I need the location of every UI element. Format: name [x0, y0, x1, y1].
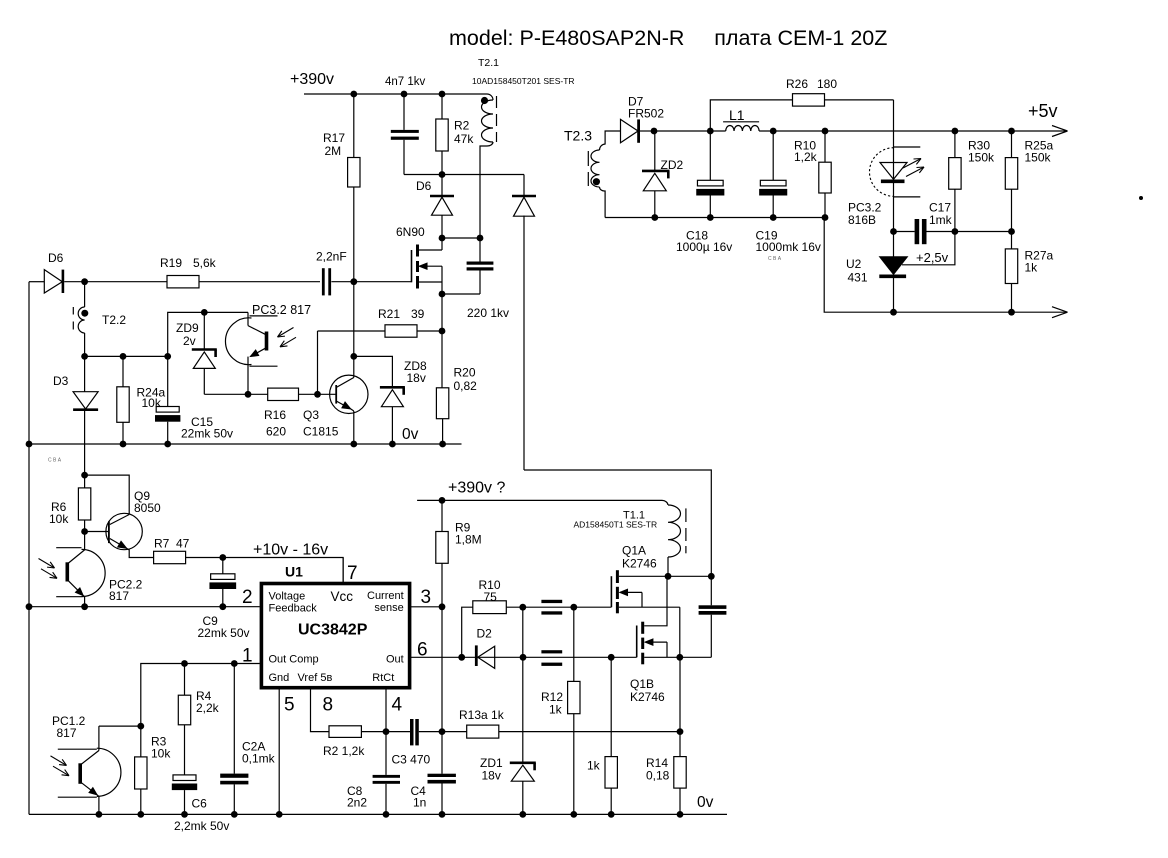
svg-text:C B A: C B A	[48, 458, 62, 464]
wire R10a left	[462, 607, 473, 657]
node ZD2 bottom	[651, 214, 658, 221]
T2.2 core dashes	[72, 307, 74, 315]
svg-text:10AD158450T201 SES-TR: 10AD158450T201 SES-TR	[472, 76, 575, 86]
wire pin7	[342, 558, 344, 584]
wire pin1	[141, 664, 260, 727]
wire R12 vert	[573, 607, 575, 681]
wire R2-C3	[361, 731, 410, 733]
svg-text:0v: 0v	[402, 426, 419, 443]
svg-text:R2: R2	[454, 119, 470, 133]
svg-text:R13a 1k: R13a 1k	[459, 708, 505, 722]
node C17-R25a	[1008, 228, 1015, 235]
wire pin3	[410, 606, 442, 608]
T2.3 core dashes	[587, 151, 589, 166]
node Q3 collector	[350, 353, 357, 360]
resistor R10 secondary	[824, 131, 826, 162]
svg-text:C B A: C B A	[768, 256, 782, 262]
zener ZD9	[203, 312, 205, 349]
svg-text:Q3: Q3	[303, 408, 319, 422]
svg-text:Out Comp: Out Comp	[269, 654, 319, 666]
node 0v R24a	[120, 441, 127, 448]
svg-text:L1: L1	[729, 107, 745, 123]
svg-text:FR502: FR502	[628, 107, 664, 121]
T1.1 core dashes	[685, 508, 687, 522]
svg-text:+390v ?: +390v ?	[448, 480, 505, 497]
capacitor C18	[709, 131, 711, 180]
svg-text:22mk 50v: 22mk 50v	[181, 427, 233, 441]
node R9-R13a	[439, 728, 446, 735]
node rail-4n7	[401, 91, 408, 98]
transistor 6N90	[411, 250, 413, 282]
svg-text:39: 39	[411, 307, 425, 321]
svg-text:18v: 18v	[482, 769, 501, 783]
node T1.1-drain	[665, 573, 672, 580]
wire cap-gate	[331, 281, 411, 283]
node Q1A source	[676, 654, 683, 661]
node T2.2-bottom	[81, 353, 88, 360]
svg-text:Vcc: Vcc	[331, 589, 354, 604]
svg-text:1n: 1n	[413, 796, 426, 810]
node gatewire-ZD1	[519, 604, 526, 611]
svg-text:8050: 8050	[134, 501, 161, 515]
node 0v ZD1	[519, 811, 526, 818]
wire 1k bottom	[610, 788, 612, 814]
svg-text:R2 1,2k: R2 1,2k	[323, 744, 365, 758]
svg-text:2M: 2M	[325, 144, 342, 158]
node U2 bottom	[890, 309, 897, 316]
node C9 bottom	[219, 603, 226, 610]
svg-text:Gnd: Gnd	[269, 672, 290, 684]
resistor R19	[167, 276, 199, 288]
wire C15 top	[167, 356, 169, 406]
wire D6l-R19	[64, 281, 167, 283]
resistor R17	[348, 158, 360, 188]
svg-text:0,1mk: 0,1mk	[242, 752, 276, 766]
wire R17-Q3 junction	[353, 282, 355, 357]
node 0v C15	[164, 441, 171, 448]
svg-text:1000mk 16v: 1000mk 16v	[756, 240, 821, 254]
node pin1-R4	[181, 660, 188, 667]
svg-text:2v: 2v	[183, 334, 196, 348]
wire R24a top stub	[122, 356, 124, 386]
svg-text:D6: D6	[48, 251, 64, 265]
node C18 top	[707, 128, 714, 135]
node R27a bottom	[1008, 309, 1015, 316]
wire R16-Q3	[299, 393, 337, 395]
optocoupler PC3.2 816B LED	[869, 148, 893, 197]
wire pin5	[278, 688, 280, 815]
svg-text:816B: 816B	[848, 213, 876, 227]
node C9 top	[219, 554, 226, 561]
resistor R3	[140, 726, 142, 757]
svg-text:UC3842P: UC3842P	[298, 622, 368, 639]
node cap220 top	[477, 235, 484, 242]
zener ZD2	[654, 131, 656, 171]
capacitor C4	[428, 774, 456, 777]
svg-text:Out: Out	[386, 654, 404, 666]
svg-text:1mk: 1mk	[929, 213, 953, 227]
wire +5 rail right	[759, 130, 1066, 132]
svg-text:817: 817	[57, 726, 77, 740]
node 0v pin5	[276, 811, 283, 818]
svg-text:K2746: K2746	[622, 557, 657, 571]
node pin1-C2A	[231, 660, 238, 667]
PC2.2 light arrows	[39, 559, 55, 569]
svg-text:10k: 10k	[142, 396, 162, 410]
svg-text:C3 470: C3 470	[392, 753, 431, 767]
wire pin4	[385, 688, 387, 732]
wire D6 bottom	[441, 216, 443, 239]
capacitor C3	[410, 719, 414, 745]
node 0v C4	[439, 811, 446, 818]
node R6-Q9 base	[81, 528, 88, 535]
node pin6-ZD1	[520, 654, 527, 661]
diode D-clamp2	[512, 195, 536, 198]
stray mark	[1139, 196, 1143, 200]
svg-text:2,2mk 50v: 2,2mk 50v	[174, 819, 229, 833]
svg-text:D2: D2	[477, 627, 493, 641]
capacitor 4n7	[391, 130, 419, 133]
transformer T2.1 winding	[480, 94, 493, 100]
svg-text:3: 3	[421, 587, 432, 608]
node D6l-T2.2	[81, 278, 88, 285]
svg-text:1,2k: 1,2k	[794, 150, 818, 164]
resistor R4	[184, 664, 186, 696]
transformer T2.3 winding	[600, 131, 621, 150]
svg-text:+10v - 16v: +10v - 16v	[253, 542, 328, 559]
wire R14 top	[679, 657, 681, 731]
wire 1k vert	[610, 657, 612, 756]
svg-text:1k: 1k	[1025, 261, 1039, 275]
wire 4n7 top	[403, 94, 405, 130]
svg-text:5,6k: 5,6k	[193, 256, 217, 270]
node 0v PC1.2	[96, 811, 103, 818]
svg-text:0,18: 0,18	[646, 769, 670, 783]
node PC3.2 emitter	[245, 391, 252, 398]
wire R13a left	[442, 731, 467, 733]
node R10sec top	[822, 128, 829, 135]
node C19 bottom	[770, 214, 777, 221]
resistor R27a	[1011, 232, 1013, 249]
svg-text:U1: U1	[285, 564, 303, 580]
diode D6 snubber	[430, 195, 454, 198]
capacitor 2,2nF	[322, 268, 325, 295]
svg-text:R19: R19	[160, 256, 182, 270]
wire R21 left	[318, 330, 386, 332]
wire collector-ZD8	[354, 356, 393, 387]
svg-text:K2746: K2746	[630, 690, 665, 704]
transistor Q1A K2746	[610, 576, 612, 607]
wire R10a right	[506, 606, 611, 608]
node 0v left	[26, 441, 33, 448]
resistor R20	[436, 388, 448, 419]
node 0v R14	[677, 811, 684, 818]
svg-text:T2.3: T2.3	[564, 128, 592, 144]
wire 4n7 bottom	[403, 140, 405, 175]
capacitor C2A	[233, 664, 235, 774]
node C15 top	[164, 353, 171, 360]
node R21-R20	[439, 328, 446, 335]
node R2-clamp	[439, 171, 446, 178]
svg-text:7: 7	[347, 563, 358, 584]
svg-text:220 1kv: 220 1kv	[467, 306, 509, 320]
wire clamp to diode2	[523, 175, 525, 197]
svg-text:+2,5v: +2,5v	[916, 250, 949, 265]
node R24a top	[120, 353, 127, 360]
wire clamp2 corner	[524, 470, 711, 576]
resistor R2 lower	[329, 726, 361, 738]
resistor R16	[268, 388, 299, 400]
svg-text:180: 180	[817, 77, 837, 91]
wire ZD9-R16 line	[204, 393, 267, 395]
optocoupler PC2.2 817	[82, 549, 106, 596]
T2.2 phase dot	[81, 310, 88, 317]
svg-text:1,8M: 1,8M	[455, 533, 482, 547]
node 0v R3	[137, 811, 144, 818]
resistor R14	[679, 732, 681, 757]
wire C15 bottom	[167, 422, 169, 444]
transformer T1.1 winding	[662, 500, 668, 505]
optocoupler PC3.2 817	[225, 318, 251, 365]
svg-text:Q1A: Q1A	[622, 544, 646, 558]
resistor R6	[84, 475, 86, 488]
svg-text:5: 5	[284, 695, 295, 716]
resistor R10 gate	[473, 601, 507, 614]
node 0v C2A	[231, 811, 238, 818]
svg-text:2,2nF: 2,2nF	[316, 250, 347, 264]
svg-text:+390v: +390v	[290, 71, 334, 88]
wire pin6 out	[410, 656, 637, 658]
wire R26-LED	[825, 99, 894, 101]
wire R9-C4	[441, 607, 443, 774]
svg-text:18v: 18v	[407, 371, 426, 385]
svg-text:Voltage: Voltage	[269, 591, 306, 603]
node C18 bottom	[707, 214, 714, 221]
T2.1 phase dot	[481, 97, 488, 104]
svg-text:R7 47: R7 47	[154, 537, 190, 551]
svg-text:R17: R17	[323, 131, 345, 145]
svg-text:2: 2	[242, 587, 253, 608]
svg-text:Vref 5в: Vref 5в	[298, 672, 333, 684]
wire +10v rail	[186, 558, 344, 582]
resistor R9	[441, 500, 443, 531]
node C19 top	[770, 128, 777, 135]
diode D7 FR502	[621, 119, 639, 142]
wire clamp node	[404, 174, 524, 176]
transformer T2.2 winding	[84, 282, 86, 307]
svg-text:R21: R21	[378, 307, 400, 321]
capacitor output	[710, 576, 712, 605]
node R3 top	[137, 723, 144, 730]
resistor R2	[436, 119, 448, 151]
svg-text:6N90: 6N90	[396, 225, 425, 239]
arrow +5v rail	[1052, 126, 1068, 132]
svg-text:T2.2: T2.2	[102, 313, 126, 327]
svg-text:150k: 150k	[968, 151, 995, 165]
transistor Q1B K2746	[636, 626, 638, 658]
node D7-ZD2	[651, 128, 658, 135]
node pin6-1k	[608, 654, 615, 661]
svg-text:ZD9: ZD9	[176, 321, 199, 335]
svg-text:D6: D6	[416, 179, 432, 193]
PC3.2 light arrows	[278, 328, 294, 338]
T2.1 core dashes	[496, 96, 498, 108]
capacitor C15	[156, 407, 179, 413]
capacitor C8	[385, 732, 387, 775]
svg-text:AD158450T1 SES-TR: AD158450T1 SES-TR	[574, 520, 658, 530]
wire U2 ref	[902, 232, 955, 265]
wire source-R20	[441, 294, 443, 388]
svg-text:10k: 10k	[151, 747, 171, 761]
svg-text:T2.1: T2.1	[478, 57, 499, 69]
wire +390v rail	[304, 93, 480, 95]
svg-text:Current: Current	[367, 590, 404, 602]
svg-text:0v: 0v	[697, 794, 714, 811]
node R21 left	[314, 391, 321, 398]
resistor R21	[385, 325, 417, 337]
capacitor gate lower	[541, 650, 562, 653]
wire R17 bottom	[353, 187, 355, 282]
node 0v R12	[570, 811, 577, 818]
wire +5 rail left	[654, 130, 726, 132]
wire drain line	[619, 575, 711, 577]
shunt regulator U2 431	[893, 232, 895, 257]
svg-text:R20: R20	[454, 366, 476, 380]
node R30 top	[952, 128, 959, 135]
L1 underline	[723, 121, 759, 123]
diode D6 left	[44, 270, 62, 293]
wire R21 right	[417, 330, 442, 332]
diode D3	[84, 356, 86, 391]
node PC2.2 emitter	[81, 603, 88, 610]
node D3-R6	[81, 472, 88, 479]
svg-text:620: 620	[266, 425, 286, 439]
capacitor 220 1kv	[479, 238, 481, 262]
svg-text:22mk 50v: 22mk 50v	[198, 626, 250, 640]
svg-text:R16: R16	[264, 408, 286, 422]
svg-text:150k: 150k	[1025, 151, 1052, 165]
svg-text:4: 4	[392, 695, 403, 716]
node 0v C8	[383, 811, 390, 818]
node R13a-R14	[677, 728, 684, 735]
diode D2	[475, 645, 478, 666]
node 0v ZD8	[389, 441, 396, 448]
wire 0v upper line	[29, 443, 462, 445]
resistor R26	[793, 94, 825, 106]
node R25a top	[1008, 128, 1015, 135]
svg-text:RtCt: RtCt	[372, 672, 394, 684]
wire clamp2 down	[523, 216, 525, 471]
node drain-cap	[708, 573, 715, 580]
resistor 1k gate	[605, 757, 617, 789]
PC3.2 LED light arrows	[903, 159, 921, 169]
svg-text:PC3.2 817: PC3.2 817	[252, 303, 311, 317]
node C17-R30	[952, 228, 959, 235]
node drain 6N90	[439, 235, 446, 242]
wire R24a bottom	[122, 422, 124, 444]
capacitor C17	[894, 231, 915, 233]
node LED-C17	[890, 228, 897, 235]
wire pin8	[311, 688, 330, 732]
wire R12 bottom	[573, 714, 575, 815]
capacitor C19	[772, 131, 774, 180]
wire D6l anode	[29, 281, 44, 283]
capacitor C9	[222, 558, 224, 574]
op-amp U1 UC3842P box	[261, 584, 409, 688]
svg-text:Feedback: Feedback	[269, 603, 318, 615]
svg-text:47k: 47k	[454, 132, 474, 146]
wire secondary gnd rail	[605, 218, 1066, 313]
capacitor gate upper	[541, 600, 562, 603]
wire R26 branch	[710, 100, 792, 131]
node R17-gatewire	[350, 278, 357, 285]
wire ZD9 node	[168, 312, 248, 356]
svg-text:10k: 10k	[49, 512, 69, 526]
wire +390v2 rail	[417, 499, 662, 501]
wire 0v bottom rail	[29, 813, 727, 815]
svg-text:1000µ 16v: 1000µ 16v	[676, 240, 732, 254]
node 0v C6	[181, 811, 188, 818]
wire R20 bottom	[442, 419, 444, 444]
svg-text:817: 817	[109, 589, 129, 603]
inductor L1	[726, 125, 759, 131]
wire R2 top	[441, 94, 443, 119]
node 0v Q3	[350, 441, 357, 448]
node rail-R9	[439, 497, 446, 504]
svg-text:1k: 1k	[587, 759, 601, 773]
wire R2 bottom	[441, 151, 443, 175]
svg-text:2,2k: 2,2k	[196, 701, 220, 715]
wire R6-Q9 collector	[85, 475, 130, 514]
wire pin2 line	[29, 606, 260, 608]
node ZD9 top	[201, 309, 208, 316]
svg-text:D3: D3	[53, 374, 69, 388]
resistor R12	[568, 681, 580, 713]
wire R17 top	[353, 94, 355, 158]
svg-text:2n2: 2n2	[347, 796, 367, 810]
wire left rail	[28, 282, 30, 815]
resistor R7	[154, 551, 186, 563]
node source 6N90	[439, 291, 446, 298]
T2.3 phase dot	[593, 178, 600, 185]
node pin3-R9	[439, 603, 446, 610]
transistor Q3 C1815	[330, 375, 368, 413]
svg-text:8: 8	[323, 695, 334, 716]
PC1.2 light arrows	[51, 756, 67, 766]
zener ZD8	[380, 386, 405, 389]
wire source link	[442, 293, 480, 295]
zener ZD1	[510, 761, 536, 764]
wire R21 left vert	[317, 331, 319, 394]
resistor R13a	[467, 725, 499, 738]
arrow gnd rail	[1052, 307, 1068, 313]
wire PC1.2-R3	[99, 725, 141, 727]
svg-text:Q1B: Q1B	[630, 677, 654, 691]
svg-text:0,82: 0,82	[454, 379, 478, 393]
wire D3 down	[84, 411, 86, 475]
wire D6 top	[441, 175, 443, 197]
node 0v R20	[439, 441, 446, 448]
svg-text:R26: R26	[786, 77, 808, 91]
svg-text:model: P-E480SAP2N-R плата: model: P-E480SAP2N-R плата CEM-1 20Z	[449, 26, 887, 50]
wire R13a right	[499, 731, 680, 733]
optocoupler PC1.2 817	[97, 748, 121, 796]
svg-text:U2: U2	[846, 257, 862, 271]
resistor R30	[954, 131, 956, 158]
wire drain link	[442, 237, 480, 239]
svg-text:C1815: C1815	[303, 425, 339, 439]
resistor R25a	[1011, 131, 1013, 158]
